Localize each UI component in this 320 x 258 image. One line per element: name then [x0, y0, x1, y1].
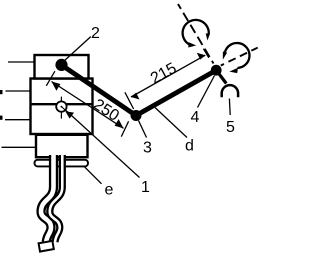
- svg-text:1: 1: [141, 179, 150, 196]
- svg-text:2: 2: [91, 25, 100, 42]
- svg-text:d: d: [185, 137, 194, 154]
- svg-text:3: 3: [143, 139, 152, 156]
- svg-text:5: 5: [226, 119, 235, 136]
- svg-text:4: 4: [191, 109, 200, 126]
- svg-text:e: e: [105, 181, 114, 198]
